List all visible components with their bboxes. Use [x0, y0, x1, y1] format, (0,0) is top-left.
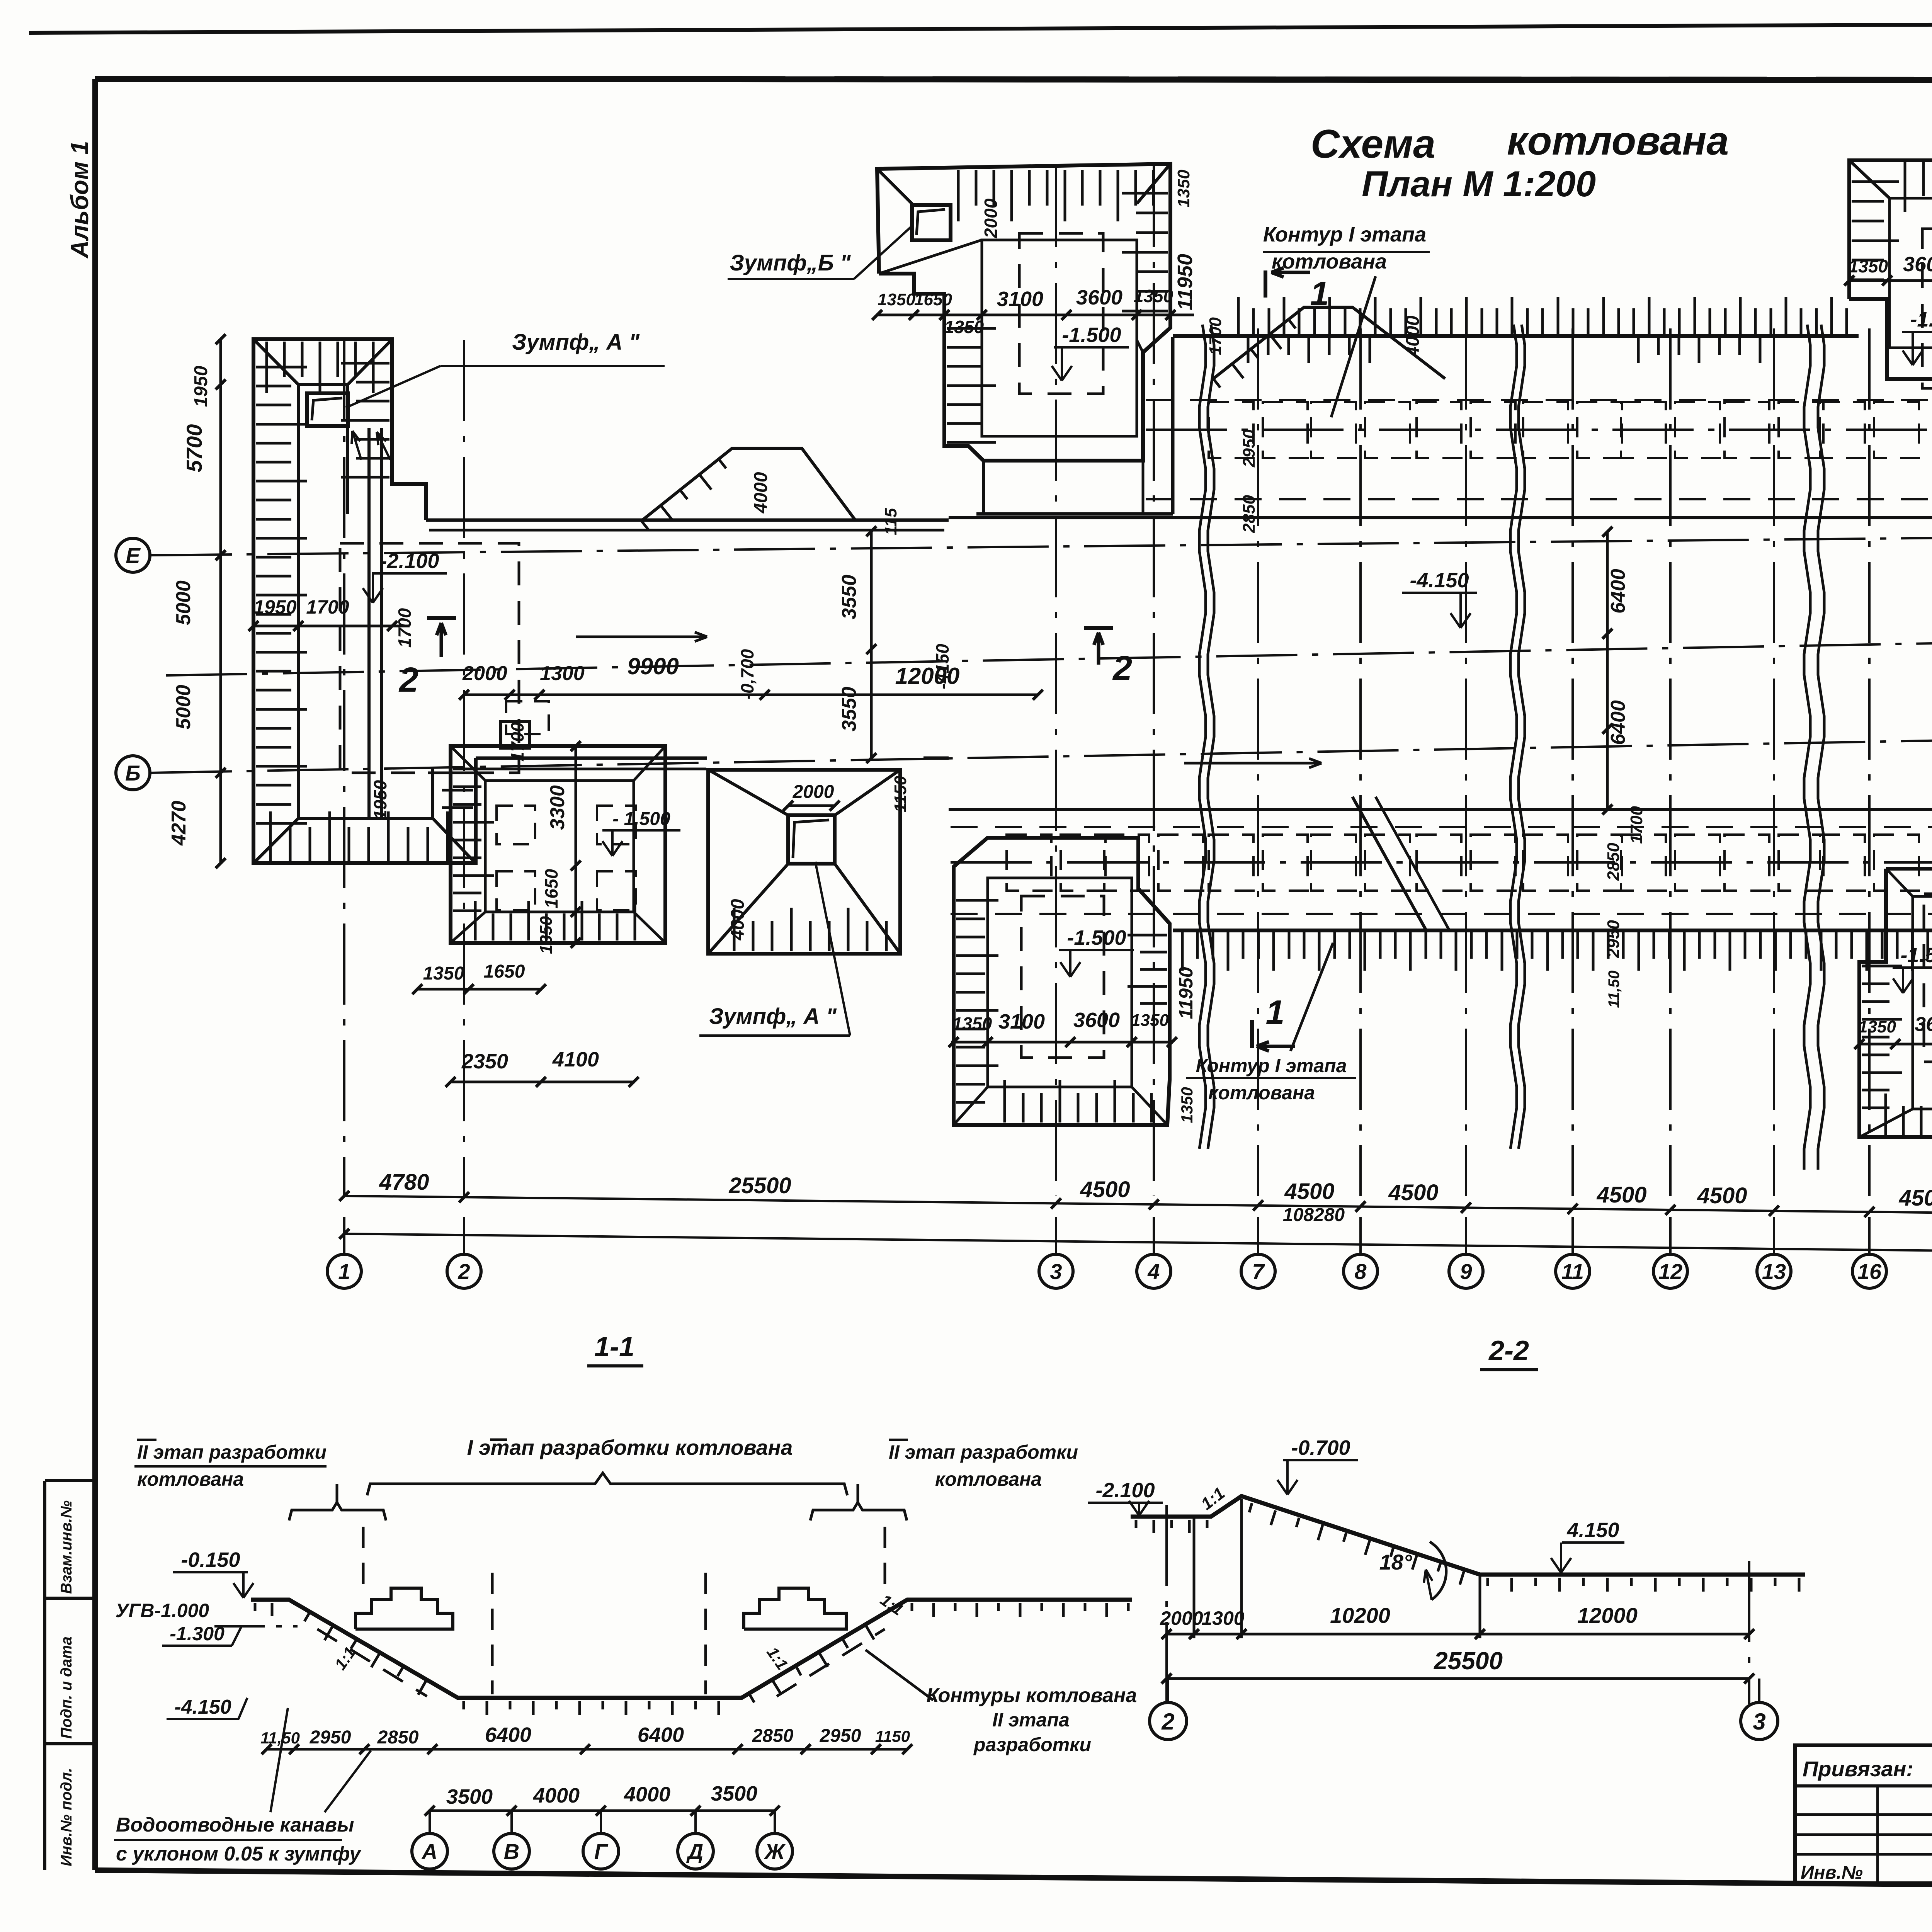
- pit P1 hatch foot right: [428, 772, 473, 774]
- axis line 9: [1465, 328, 1467, 1196]
- title block attachment table: [1795, 1745, 1932, 1883]
- axis line 8: [1359, 328, 1362, 1196]
- pit P6 hatch bottom: [1003, 1080, 1006, 1122]
- pit P2 hatch left: [947, 327, 996, 330]
- axis bubble 9: [1465, 1217, 1467, 1254]
- svg-text:Е: Е: [126, 543, 141, 568]
- svg-text:25500: 25500: [728, 1173, 791, 1198]
- drain arrow west: [576, 636, 707, 638]
- trench top footing band dashed lines: [1146, 399, 1932, 401]
- svg-text:4270: 4270: [168, 801, 190, 846]
- svg-text:-2.100: -2.100: [1095, 1479, 1155, 1502]
- svg-text:5000: 5000: [172, 685, 195, 730]
- pit P4 outline: [451, 746, 665, 943]
- pit P3 dashed contour: [1922, 229, 1932, 388]
- svg-text:1: 1: [1266, 993, 1285, 1031]
- svg-text:Схема: Схема: [1311, 122, 1435, 167]
- pit P1 drain channel: [367, 428, 371, 817]
- axis line 16: [1868, 328, 1871, 1196]
- axis line B-V: [151, 729, 1932, 773]
- P4 dim row 1350 1650: [417, 988, 541, 991]
- P2 descent to trench: [982, 461, 985, 514]
- svg-text:2850: 2850: [377, 1727, 419, 1748]
- svg-text:2000: 2000: [1160, 1607, 1203, 1629]
- pit P3 hatch top: [1904, 162, 1906, 212]
- svg-text:9900: 9900: [627, 653, 679, 679]
- svg-text:6400: 6400: [1607, 700, 1629, 745]
- bottom dim total 108280: [344, 1234, 1932, 1255]
- svg-text:16: 16: [1857, 1259, 1882, 1284]
- sec2 dim 25500: [1167, 1677, 1749, 1680]
- svg-text:25500: 25500: [1434, 1647, 1503, 1675]
- section mark 1 top: [1264, 270, 1267, 298]
- svg-text:Зумпф„ А ": Зумпф„ А ": [709, 1004, 837, 1029]
- ramp crossing bottom band: [1352, 797, 1426, 930]
- svg-text:-0.700: -0.700: [1291, 1436, 1350, 1459]
- sec2 axis bubbles: [1167, 1679, 1169, 1702]
- svg-text:6400: 6400: [638, 1723, 684, 1747]
- axis bubble 11: [1571, 1217, 1574, 1254]
- axis bubble 7: [1257, 1217, 1259, 1254]
- svg-text:4000: 4000: [728, 899, 748, 940]
- svg-text:1: 1: [1310, 274, 1329, 313]
- svg-text:3300: 3300: [546, 785, 569, 830]
- pit P4 hatch bottom: [474, 901, 477, 940]
- svg-text:3600: 3600: [1903, 253, 1932, 276]
- svg-text:1: 1: [338, 1259, 350, 1284]
- trench bottom footing squares: [1007, 835, 1051, 891]
- svg-text:13: 13: [1762, 1259, 1786, 1284]
- svg-text:-4.150: -4.150: [1410, 569, 1469, 592]
- svg-text:2-2: 2-2: [1488, 1335, 1529, 1366]
- sec1 right footing steps: [744, 1588, 846, 1629]
- svg-text:-1.500: -1.500: [1910, 308, 1932, 331]
- svg-text:разработки: разработки: [973, 1734, 1091, 1755]
- svg-text:I этап разработки котлована: I этап разработки котлована: [467, 1435, 793, 1459]
- sec2 ground profile: [1131, 1496, 1805, 1575]
- svg-text:3100: 3100: [997, 287, 1043, 311]
- drain arrow center: [1184, 762, 1321, 765]
- pit P5 outline: [708, 770, 900, 954]
- svg-text:4500: 4500: [1284, 1179, 1334, 1204]
- svg-text:11950: 11950: [1173, 254, 1197, 310]
- left margin stamp column: [43, 1481, 46, 1870]
- sump A bottom box: [788, 815, 835, 864]
- svg-text:1700: 1700: [507, 722, 527, 762]
- section mark 2 left: [427, 616, 456, 620]
- svg-text:Б: Б: [125, 761, 141, 785]
- svg-text:2850: 2850: [752, 1726, 794, 1746]
- svg-text:3500: 3500: [446, 1785, 493, 1808]
- footing row centreline top: [1146, 429, 1932, 431]
- svg-text:4000: 4000: [533, 1784, 580, 1807]
- svg-text:108280: 108280: [1283, 1205, 1345, 1225]
- svg-text:1150: 1150: [875, 1727, 910, 1745]
- svg-text:4500: 4500: [1697, 1183, 1747, 1208]
- svg-text:1950: 1950: [253, 596, 296, 618]
- svg-text:-1.300: -1.300: [170, 1623, 224, 1645]
- svg-text:2950: 2950: [310, 1727, 351, 1748]
- pit P1 hatch left: [256, 366, 307, 369]
- svg-text:3600: 3600: [1073, 1009, 1120, 1032]
- pit P1 hatch top: [265, 342, 268, 393]
- svg-text:1350: 1350: [1178, 1087, 1196, 1123]
- pit P5 corner slopes: [708, 770, 788, 815]
- svg-text:1350: 1350: [1849, 256, 1888, 276]
- trench arm top edge: [426, 519, 949, 522]
- pit P6 hatch right: [1128, 934, 1167, 937]
- svg-text:1350: 1350: [1858, 1017, 1896, 1036]
- axis line 1: [343, 340, 345, 1196]
- svg-text:Контур I этапа: Контур I этапа: [1196, 1055, 1347, 1077]
- pit P2 hatch right: [1122, 192, 1168, 195]
- svg-text:3600: 3600: [1915, 1013, 1932, 1036]
- P2 dim row: [877, 314, 1194, 316]
- pit P2 inner edge: [982, 240, 1137, 436]
- svg-text:2950: 2950: [1240, 429, 1259, 468]
- section mark 2 right: [1084, 626, 1113, 630]
- west chain 2000 1300 9900: [464, 694, 1038, 696]
- svg-text:4.150: 4.150: [1566, 1519, 1619, 1542]
- pit P1 stage II dashed contour: [340, 543, 519, 773]
- axis line 12: [1669, 328, 1672, 1196]
- pit P6 hatch left: [956, 899, 998, 902]
- svg-text:11,50: 11,50: [1605, 970, 1622, 1008]
- svg-text:8: 8: [1354, 1259, 1367, 1284]
- pit P7 inner edge: [1913, 896, 1932, 1109]
- svg-text:2: 2: [457, 1259, 470, 1284]
- svg-text:3: 3: [1753, 1709, 1765, 1735]
- svg-text:2: 2: [1112, 649, 1132, 688]
- svg-text:-0,700: -0,700: [737, 649, 757, 699]
- svg-text:5000: 5000: [172, 580, 195, 625]
- pit P1 outline (left excavation with sump A): [253, 339, 476, 863]
- svg-text:1-1: 1-1: [594, 1332, 634, 1362]
- svg-text:Зумпф„Б ": Зумпф„Б ": [730, 250, 851, 276]
- sec1 drainage leader: [270, 1708, 288, 1812]
- svg-text:1950: 1950: [370, 780, 390, 820]
- svg-text:4500: 4500: [1898, 1185, 1932, 1211]
- pit P6 dashed contour: [1021, 896, 1104, 1058]
- svg-text:1350: 1350: [1131, 1011, 1169, 1030]
- pit P7 outline: [1859, 869, 1932, 1137]
- sump A box: [307, 393, 348, 426]
- axis line G: [166, 631, 1932, 675]
- axis bubble B-left: [116, 756, 150, 790]
- svg-text:-4.150: -4.150: [174, 1696, 231, 1718]
- pit P1 hatch head right: [341, 362, 389, 365]
- footing row centreline bottom: [951, 861, 1932, 864]
- trench stage I bottom edge: [1173, 929, 1932, 932]
- trench bottom footing band dashed lines: [951, 826, 1932, 828]
- svg-text:115: 115: [881, 508, 900, 535]
- svg-text:Инв.№: Инв.№: [1801, 1862, 1863, 1883]
- svg-text:-1.500: -1.500: [1067, 926, 1126, 949]
- axis bubble 12: [1669, 1217, 1672, 1254]
- axis line E-D: [151, 532, 1932, 555]
- svg-text:4: 4: [1147, 1259, 1160, 1284]
- trench upper step edge: [949, 516, 1932, 519]
- svg-text:Водоотводные канавы: Водоотводные канавы: [116, 1814, 354, 1836]
- svg-text:18°: 18°: [1379, 1550, 1412, 1574]
- svg-text:2950: 2950: [820, 1726, 861, 1746]
- svg-text:4500: 4500: [1596, 1182, 1646, 1207]
- svg-text:3600: 3600: [1076, 286, 1122, 309]
- sec1 left footing steps: [355, 1588, 453, 1629]
- svg-text:6400: 6400: [485, 1723, 531, 1747]
- sec2 axis lines: [1165, 1505, 1168, 1704]
- pit P4 dashed column footings: [497, 806, 535, 844]
- pit P1 corner slopes: [253, 339, 298, 384]
- svg-text:котлована: котлована: [137, 1468, 244, 1490]
- svg-text:- 1.500: - 1.500: [612, 809, 670, 829]
- pit P2 stage II dashed contour: [1019, 233, 1103, 394]
- svg-text:11: 11: [1561, 1259, 1584, 1284]
- svg-text:3100: 3100: [998, 1010, 1045, 1033]
- axis line 11: [1571, 328, 1574, 1196]
- svg-text:12000: 12000: [1577, 1603, 1638, 1628]
- P3 dim row: [1849, 279, 1932, 282]
- bottom dim chain values: [344, 1196, 1932, 1217]
- axis line 2: [463, 340, 465, 1196]
- svg-text:1650: 1650: [914, 290, 952, 309]
- P6 dim row: [951, 1041, 1172, 1044]
- trench stage I top edge: [1173, 334, 1859, 338]
- pit P7 hatch: [1862, 965, 1902, 968]
- svg-text:6400: 6400: [1607, 569, 1629, 614]
- sec1 slope hatch: [304, 1613, 309, 1621]
- sec2 dim chain: [1167, 1633, 1749, 1636]
- svg-text:5700: 5700: [182, 424, 206, 473]
- svg-text:Контуры котлована: Контуры котлована: [927, 1684, 1137, 1707]
- svg-text:7: 7: [1252, 1259, 1265, 1284]
- svg-text:4500: 4500: [1388, 1180, 1438, 1205]
- pit P2 corner slopes: [1137, 164, 1170, 204]
- svg-text:-2.100: -2.100: [380, 549, 439, 573]
- svg-text:Альбом 1: Альбом 1: [66, 141, 94, 259]
- svg-text:2850: 2850: [1240, 495, 1259, 533]
- axis line 4: [1153, 166, 1155, 1196]
- pit P7 dashed contour: [1924, 894, 1932, 1062]
- trench lower step edge: [949, 808, 1932, 811]
- sec1 stage II dashed verticals: [362, 1527, 365, 1598]
- axis bubble E: [116, 538, 150, 572]
- svg-text:Привязан:: Привязан:: [1803, 1757, 1913, 1781]
- svg-text:А: А: [421, 1839, 437, 1864]
- svg-text:1300: 1300: [1201, 1607, 1244, 1629]
- pit P2 hatch top: [957, 170, 960, 221]
- ramp crossing top band: [1213, 307, 1445, 379]
- trench top footing squares: [1209, 402, 1253, 458]
- svg-text:Взам.инв.№: Взам.инв.№: [58, 1500, 75, 1594]
- svg-text:котлована: котлована: [935, 1468, 1042, 1490]
- pit P4 inner edge: [485, 781, 634, 912]
- svg-text:1350: 1350: [1174, 170, 1193, 207]
- sec1 stage I brace: [367, 1473, 847, 1495]
- svg-text:10200: 10200: [1330, 1603, 1390, 1628]
- sec1 ground and pit profile: [251, 1600, 1132, 1698]
- pit P3 outline: [1849, 160, 1932, 379]
- svg-text:1350: 1350: [944, 317, 984, 337]
- svg-text:II этап разработки: II этап разработки: [137, 1441, 327, 1463]
- drawing frame border: [95, 79, 1932, 80]
- svg-text:3: 3: [1050, 1259, 1062, 1284]
- pit P6 inner edge: [988, 878, 1132, 1087]
- svg-text:котлована: котлована: [1507, 119, 1729, 163]
- pit P5 hatch bottom: [733, 908, 736, 951]
- pit P3 corner slopes: [1849, 160, 1889, 198]
- svg-text:Г: Г: [594, 1839, 609, 1864]
- svg-text:1650: 1650: [484, 961, 525, 982]
- svg-text:1150: 1150: [891, 776, 910, 812]
- pit P3 hatch sides: [1852, 180, 1899, 183]
- pit P1 hatch bottom: [269, 811, 272, 861]
- svg-text:1700: 1700: [1627, 806, 1646, 844]
- svg-text:II этапа: II этапа: [992, 1709, 1070, 1731]
- svg-text:УГВ-1.000: УГВ-1.000: [116, 1600, 209, 1621]
- svg-text:4780: 4780: [379, 1170, 429, 1195]
- small footing step above P4: [501, 721, 529, 748]
- P4 dim row 2350 4100: [451, 1081, 634, 1083]
- sec1 right brace: [810, 1502, 907, 1520]
- svg-text:2000: 2000: [793, 782, 834, 802]
- svg-text:-1.500: -1.500: [1900, 944, 1932, 967]
- svg-text:2350: 2350: [461, 1050, 508, 1073]
- svg-text:Д: Д: [686, 1839, 703, 1864]
- svg-text:1700: 1700: [395, 608, 415, 648]
- axis line 13: [1773, 328, 1775, 1196]
- svg-text:Подп. и дата: Подп. и дата: [58, 1636, 75, 1739]
- svg-text:1350: 1350: [1134, 286, 1173, 306]
- sec1 stage II slope contours dashed: [317, 1629, 427, 1696]
- svg-text:котлована: котлована: [1272, 250, 1387, 273]
- svg-text:Зумпф„ А ": Зумпф„ А ": [512, 330, 640, 355]
- svg-text:1350: 1350: [952, 1014, 992, 1034]
- svg-text:2000: 2000: [462, 662, 507, 685]
- svg-text:1350: 1350: [423, 963, 464, 984]
- svg-text:3550: 3550: [838, 575, 861, 619]
- axis bubble 4: [1153, 1217, 1155, 1254]
- svg-text:-0.150: -0.150: [181, 1548, 240, 1571]
- axis bubble 13: [1773, 1217, 1775, 1254]
- svg-text:2: 2: [1161, 1709, 1174, 1735]
- svg-text:12: 12: [1658, 1259, 1682, 1284]
- break lines: [1199, 325, 1206, 1149]
- axis bubble 1: [343, 1217, 345, 1254]
- pit P3 inner edge: [1889, 198, 1932, 348]
- svg-text:11950: 11950: [1175, 967, 1197, 1019]
- pit P4 hatch left: [453, 768, 494, 770]
- svg-text:2: 2: [398, 661, 418, 699]
- svg-text:1650: 1650: [541, 869, 561, 908]
- svg-text:4000: 4000: [751, 472, 771, 514]
- axis bubble 8: [1359, 1217, 1362, 1254]
- axis bubble 2: [463, 1217, 465, 1254]
- axis line 7: [1257, 328, 1259, 1196]
- sec1 dim chain fine: [267, 1748, 907, 1751]
- svg-text:Ж: Ж: [764, 1839, 786, 1864]
- axis bubble 3: [1055, 1217, 1057, 1254]
- P1 left vertical dims: [219, 339, 222, 863]
- section mark 1 bottom: [1250, 1020, 1254, 1048]
- svg-text:-1.500: -1.500: [1062, 323, 1121, 347]
- svg-text:котлована: котлована: [1208, 1082, 1315, 1104]
- svg-text:2950: 2950: [1604, 920, 1623, 958]
- sec1 dim chain axes: [430, 1810, 775, 1812]
- svg-text:План М 1:200: План М 1:200: [1362, 163, 1596, 204]
- svg-text:1300: 1300: [540, 662, 585, 685]
- ramp west (4000 slope): [641, 448, 856, 521]
- svg-text:Контур I этапа: Контур I этапа: [1263, 223, 1426, 246]
- svg-text:II этап разработки: II этап разработки: [889, 1441, 1078, 1463]
- svg-text:3550: 3550: [838, 687, 861, 731]
- svg-text:В: В: [504, 1839, 519, 1864]
- pit P2 outline: [877, 164, 1170, 461]
- trench arm bottom edge: [476, 757, 707, 760]
- svg-text:9: 9: [1460, 1259, 1472, 1284]
- pit P6 outline: [954, 838, 1170, 1125]
- svg-text:с уклоном 0.05 к зумпфу: с уклоном 0.05 к зумпфу: [116, 1843, 362, 1865]
- sump B box top: [912, 205, 951, 240]
- svg-text:3500: 3500: [711, 1782, 757, 1805]
- svg-text:11,50: 11,50: [260, 1729, 300, 1747]
- sec1 stage I dashed verticals: [491, 1573, 494, 1694]
- sec1 axis bubbles: [429, 1811, 431, 1833]
- sec1 water level line: [214, 1625, 298, 1628]
- svg-text:1350: 1350: [537, 916, 556, 954]
- svg-text:2850: 2850: [1604, 843, 1623, 881]
- svg-text:2000: 2000: [981, 198, 1001, 238]
- svg-text:Инв.№ подл.: Инв.№ подл.: [58, 1768, 75, 1866]
- svg-text:4000: 4000: [1403, 315, 1423, 357]
- sec1 left brace: [289, 1502, 386, 1520]
- svg-text:4000: 4000: [624, 1783, 670, 1806]
- axis line 3: [1055, 166, 1057, 1196]
- sheet top paper edge: [29, 21, 1932, 33]
- svg-text:-4150: -4150: [932, 644, 952, 689]
- svg-text:4500: 4500: [1080, 1177, 1130, 1202]
- axis bubble 16: [1868, 1217, 1871, 1254]
- svg-text:4100: 4100: [552, 1048, 599, 1071]
- svg-text:1350: 1350: [878, 290, 915, 309]
- svg-text:1950: 1950: [191, 366, 211, 407]
- svg-text:1700: 1700: [306, 596, 349, 618]
- pit P1 inner edges: [298, 383, 348, 386]
